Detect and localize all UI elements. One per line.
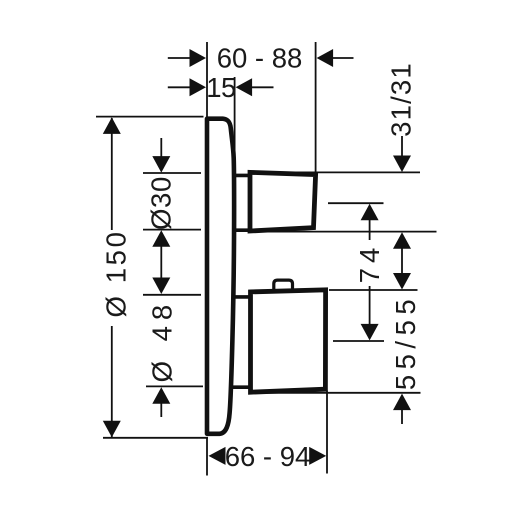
svg-text:Ø30: Ø30 bbox=[146, 176, 177, 230]
dim 15 left arrow bbox=[168, 86, 191, 88]
extension line knob1-face top (x=315.6) bbox=[315, 42, 317, 173]
dim Ø150 line upper segment bbox=[111, 118, 113, 230]
dim 66-94 left arrow bbox=[209, 447, 226, 465]
dim 66-94 right arrow bbox=[309, 447, 326, 465]
extension line Ø150 top (y=117.2) bbox=[96, 116, 204, 118]
extension line Ø150 bottom (y=437.8) bbox=[103, 437, 208, 439]
escutcheon plate (side view) bbox=[207, 119, 234, 434]
extension line plate-left top (x=207) bbox=[206, 42, 208, 117]
extension line knob2-bottom left bbox=[146, 385, 203, 387]
svg-text:Ø 48: Ø 48 bbox=[147, 299, 178, 383]
dim 31/31 stem bbox=[401, 136, 403, 157]
extension line plate-left bottom (x=207) bbox=[206, 438, 208, 476]
extension line knob1-bottom right bbox=[252, 231, 437, 233]
knob1 (temperature handle) bbox=[250, 172, 316, 231]
extension line knob1-bottom left bbox=[143, 229, 201, 231]
dim 74 bottom arrow (down) bbox=[361, 324, 379, 341]
knob1 collar bottom line bbox=[232, 228, 249, 232]
dim 74 top arrow (up) bbox=[361, 204, 379, 221]
dim 74 upper stem bbox=[369, 219, 371, 240]
knob2 collar top line bbox=[232, 295, 250, 299]
dim Ø150 line lower segment bbox=[111, 326, 113, 437]
svg-text:15: 15 bbox=[206, 72, 236, 103]
extension line knob2-bottom right (y=392.8) bbox=[255, 392, 421, 394]
extension line knob1-center (y=203.2) bbox=[328, 202, 384, 204]
dim 55/55 lower stem bbox=[401, 409, 403, 424]
extension line knob1-top right bbox=[252, 171, 420, 173]
dim Ø150 bottom arrow bbox=[103, 421, 121, 438]
svg-text:74: 74 bbox=[354, 243, 385, 284]
dim 60-88 right arrow bbox=[332, 57, 354, 59]
dim Ø48 lower stem bbox=[160, 403, 162, 417]
extension line knob1-top left bbox=[143, 172, 201, 174]
dim Ø150 top arrow bbox=[103, 117, 121, 133]
svg-text:31/31: 31/31 bbox=[386, 62, 417, 137]
dim Ø48 bottom arrow (up) bbox=[152, 387, 170, 404]
dim 31/31 arrow (down) bbox=[393, 156, 411, 173]
dim Ø30 upper stem bbox=[160, 138, 162, 157]
dim Ø48 top arrow (down) bbox=[152, 278, 170, 295]
knob2 (volume handle) bbox=[251, 290, 326, 392]
extension line knob2-top left bbox=[143, 294, 201, 296]
dim 55/55 bottom arrow (up) bbox=[393, 394, 411, 411]
dim 55/55 top arrow (down) bbox=[393, 273, 411, 290]
svg-text:66 - 94: 66 - 94 bbox=[225, 441, 311, 472]
svg-text:Ø 150: Ø 150 bbox=[101, 230, 132, 318]
svg-text:60 - 88: 60 - 88 bbox=[217, 43, 303, 74]
dim Ø30 top arrow (down) bbox=[152, 156, 170, 173]
dim 74 lower stem bbox=[369, 286, 371, 325]
extension line plate-right top (x=234.6) bbox=[234, 77, 236, 152]
extension line knob2-top right (y=290) bbox=[329, 289, 418, 291]
extension line knob2-face bottom (x=327) bbox=[326, 391, 328, 474]
dim 31/31-55/55 double arrow up bbox=[393, 232, 411, 249]
double arrow stem left chain bbox=[160, 246, 162, 279]
dim Ø30/Ø48 double arrow up bbox=[152, 230, 170, 247]
extension line knob2-center (y=341) bbox=[333, 340, 384, 342]
knob2 collar bottom line bbox=[232, 385, 250, 389]
dim 60-88 left arrow bbox=[168, 57, 191, 59]
svg-text:55/55: 55/55 bbox=[390, 294, 421, 390]
double arrow stem right chain bbox=[401, 248, 403, 275]
knob1 collar top line bbox=[232, 174, 249, 178]
dim 15 right arrow bbox=[252, 86, 274, 88]
knob2 stop button tab bbox=[274, 280, 293, 293]
